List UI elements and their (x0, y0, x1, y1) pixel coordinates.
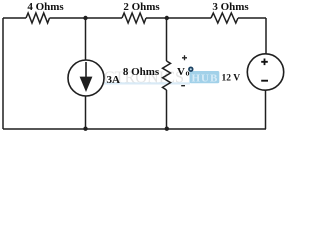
current source I1 3A circle (68, 60, 104, 96)
watermark underline band (104, 82, 190, 84)
junction node bottom right (165, 127, 169, 131)
wire current-source branch top (85, 18, 87, 60)
wire top between R2 and node B (146, 17, 211, 19)
voltage source V1 12V circle (247, 54, 283, 90)
svg-text:8 Ohms: 8 Ohms (123, 66, 160, 78)
minus sign inside source (261, 80, 268, 82)
svg-text:o: o (186, 69, 190, 78)
wire top-left segment (3, 17, 26, 19)
polarity plus of Vo (182, 55, 187, 60)
wire 8-ohm branch bottom (166, 90, 168, 129)
wire bottom (3, 128, 266, 130)
junction node B top (165, 16, 169, 20)
junction node bottom left (83, 127, 87, 131)
wire current-source branch bottom (85, 96, 87, 129)
svg-text:4 Ohms: 4 Ohms (27, 1, 64, 13)
resistor R2 2 Ohms (122, 13, 146, 23)
watermark badge (188, 67, 193, 72)
resistor R3 3 Ohms (211, 13, 238, 23)
watermark HUB box (190, 71, 220, 83)
svg-text:3A: 3A (107, 74, 121, 86)
resistor R4 8 Ohms vertical (163, 61, 171, 90)
svg-text:3 Ohms: 3 Ohms (212, 1, 249, 13)
polarity minus of Vo (181, 85, 185, 87)
svg-text:12 V: 12 V (222, 74, 241, 84)
wire 12V branch top (265, 18, 267, 54)
wire 12V branch bottom (265, 90, 267, 129)
wire left side (2, 18, 4, 129)
current source arrow (85, 62, 87, 78)
plus sign inside source (261, 59, 268, 66)
junction node A top (83, 16, 87, 20)
wire top between R1 and node A (50, 17, 123, 19)
svg-text:2 Ohms: 2 Ohms (123, 1, 160, 13)
resistor R1 4 Ohms (26, 13, 50, 23)
svg-text:V: V (177, 66, 185, 78)
wire top-right segment (238, 17, 266, 19)
wire 8-ohm branch top (166, 18, 168, 61)
svg-text:HUB: HUB (192, 73, 219, 85)
